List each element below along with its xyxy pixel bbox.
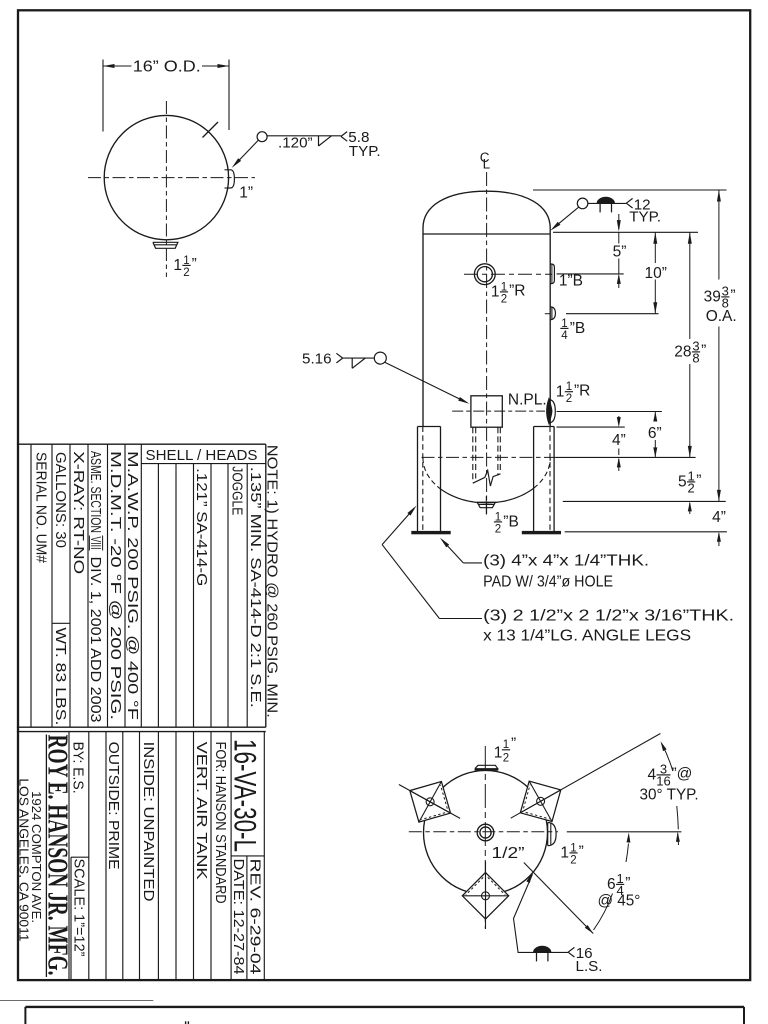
svg-text:M.D.M.T. -20 °F @ 200: M.D.M.T. -20 °F @ 200 PSIG.	[107, 451, 123, 720]
leader balloon 12 TYP. at top head	[533, 190, 727, 232]
svg-text:.121” SA-414-G: .121” SA-414-G	[193, 468, 209, 586]
svg-text:”: ”	[696, 473, 701, 490]
svg-text:1: 1	[570, 842, 576, 854]
svg-text:VERT. AIR TANK: VERT. AIR TANK	[193, 742, 209, 880]
top view 1-1/2" bottom coupling	[153, 242, 197, 278]
elevation vertical centerline	[486, 172, 488, 514]
elevation 1/4"B side coupling	[550, 307, 585, 342]
svg-text:2: 2	[687, 480, 694, 495]
svg-text:8: 8	[692, 350, 699, 365]
svg-text:2: 2	[566, 393, 572, 405]
svg-text:REV. 6-29-04: REV. 6-29-04	[246, 859, 262, 975]
dimension 10"	[644, 232, 666, 313]
top view tank shell circle	[104, 115, 228, 239]
title block grid	[69, 732, 264, 981]
elevation dimension extension lines	[545, 232, 727, 532]
elevation nameplate N.PL.	[452, 392, 546, 427]
svg-text:39: 39	[704, 289, 721, 306]
dimension 4" base	[712, 509, 726, 546]
bottom view tank circle	[424, 771, 548, 895]
bottom view dimension 4-3/16" @ 30 TYP.	[567, 741, 699, 845]
svg-text:4: 4	[648, 767, 657, 784]
elevation right angle leg	[522, 427, 561, 535]
svg-text:”: ”	[730, 288, 735, 305]
bottom view angle leg upper-right	[511, 734, 661, 822]
leader (3) angle legs callout	[382, 506, 734, 645]
svg-text:1: 1	[495, 511, 501, 523]
svg-text:5”: 5”	[613, 244, 627, 261]
svg-text:LOS ANGELES, CA 90011: LOS ANGELES, CA 90011	[16, 778, 31, 941]
svg-text:1: 1	[173, 257, 182, 274]
svg-text:10”: 10”	[644, 265, 666, 282]
svg-text:INSIDE: UNPAINTED: INSIDE: UNPAINTED	[140, 742, 156, 902]
svg-text:1: 1	[183, 255, 189, 267]
svg-text:”: ”	[192, 256, 197, 273]
svg-text:TYP.: TYP.	[349, 143, 381, 160]
svg-text:”B: ”B	[570, 320, 586, 337]
svg-text:6”: 6”	[648, 425, 662, 442]
second sheet top edge	[0, 1001, 744, 1024]
svg-text:SHELL / HEADS: SHELL / HEADS	[146, 448, 258, 464]
weld callout 16 L.S.	[514, 873, 603, 975]
svg-text:1: 1	[494, 745, 503, 762]
svg-text:30° TYP.: 30° TYP.	[640, 786, 699, 803]
svg-text:”B: ”B	[503, 514, 519, 531]
top view centerlines	[88, 101, 255, 277]
elevation 1/2"B bottom drain	[477, 496, 519, 535]
svg-text:2: 2	[495, 523, 501, 535]
bottom view angle leg upper-left	[399, 782, 460, 823]
svg-text:2: 2	[503, 752, 509, 764]
svg-text:WT. 83 LBS.: WT. 83 LBS.	[52, 627, 68, 725]
svg-text:DATE: 12-27-84: DATE: 12-27-84	[230, 859, 246, 975]
weld callout .120" / 5.8 TYP.	[267, 129, 381, 160]
svg-text:”R: ”R	[509, 283, 525, 300]
svg-text:4”: 4”	[612, 432, 626, 449]
bottom view dimension 6-1/4" @ 45	[524, 833, 641, 934]
dimension 39-3/8" O.A.	[704, 190, 737, 501]
svg-text:PAD W/ 3/4”ø HOLE: PAD W/ 3/4”ø HOLE	[483, 573, 613, 590]
dimension 5-1/2"	[678, 468, 701, 514]
elevation bottom head	[423, 458, 550, 503]
svg-text:”: ”	[511, 736, 516, 753]
svg-text:16-VA-30-L: 16-VA-30-L	[227, 739, 263, 852]
svg-text:JOGGLE: JOGGLE	[229, 466, 245, 515]
svg-text:GALLONS: 30: GALLONS: 30	[52, 452, 68, 548]
note hydro test	[263, 445, 280, 718]
specification table grid	[17, 444, 266, 731]
svg-text:ASME. SECTION: ASME. SECTION	[87, 451, 103, 533]
bottom view centerlines	[409, 746, 558, 929]
specification table texts	[33, 448, 264, 725]
top view weld tick mark	[203, 122, 219, 138]
elevation 1"B side coupling	[550, 264, 583, 290]
bottom view 1/2" center fitting	[477, 824, 524, 862]
top view dimension 16" O.D.	[103, 58, 229, 131]
elevation tank shell and top head	[423, 191, 550, 530]
svg-text:2: 2	[501, 293, 507, 305]
svg-text:1: 1	[566, 381, 572, 393]
svg-text:SERIAL NO. UM#: SERIAL NO. UM#	[33, 452, 49, 563]
svg-text:DIV. 1, 2001 ADD 2003: DIV. 1, 2001 ADD 2003	[87, 557, 103, 723]
svg-text:1: 1	[491, 284, 500, 301]
svg-text:”: ”	[625, 875, 630, 892]
svg-text:1: 1	[560, 845, 569, 862]
dimension 6"	[648, 412, 662, 458]
dimension 4" legs	[612, 416, 626, 471]
svg-text:X-RAY: RT-NO: X-RAY: RT-NO	[70, 451, 86, 574]
svg-text:1: 1	[503, 739, 509, 751]
svg-text:N.PL.: N.PL.	[508, 392, 547, 409]
top view 1" coupling	[225, 170, 254, 202]
company name block	[16, 735, 73, 978]
svg-text:L.S.: L.S.	[576, 958, 603, 975]
svg-text:6: 6	[607, 876, 616, 893]
svg-text:1/2”: 1/2”	[492, 845, 525, 862]
svg-text:1: 1	[561, 318, 567, 330]
svg-text:x 13 1/4”LG. ANGLE LEGS: x 13 1/4”LG. ANGLE LEGS	[483, 628, 691, 645]
bottom view 1-1/2" top fitting	[475, 736, 517, 770]
svg-text:TYP.: TYP.	[629, 209, 661, 226]
title block texts	[70, 739, 264, 975]
svg-text:OUTSIDE: PRIME: OUTSIDE: PRIME	[105, 742, 121, 870]
svg-text:1: 1	[556, 383, 565, 400]
svg-text:28: 28	[674, 344, 691, 361]
svg-text:NOTE: 1) HYDRO @ 260 PSIG. MIN: NOTE: 1) HYDRO @ 260 PSIG. MIN.	[263, 445, 280, 718]
svg-text:.135” MIN. SA-414-D 2:1 S: .135” MIN. SA-414-D 2:1 S.E.	[247, 467, 263, 708]
elevation 1-1/2"R lower side coupling	[547, 381, 590, 423]
svg-text:(3) 2 1/2”x 2 1/2”x 3/16”: (3) 2 1/2”x 2 1/2”x 3/16”THK.	[483, 607, 734, 624]
svg-text:.120”: .120”	[278, 135, 313, 152]
svg-text:1”: 1”	[239, 185, 253, 202]
elevation internal dip tube (hidden)	[473, 427, 501, 486]
elevation left angle leg	[411, 427, 450, 535]
svg-text:2: 2	[183, 267, 189, 279]
elevation bottom tangent line	[422, 456, 557, 458]
svg-text:(3) 4”x 4”x 1/4”THK.: (3) 4”x 4”x 1/4”THK.	[483, 553, 649, 570]
weld callout 5.16 with leader to nameplate	[302, 351, 469, 404]
svg-text:@ 45°: @ 45°	[598, 893, 641, 910]
bottom view angle leg bottom	[462, 862, 508, 930]
svg-text:M.A.W.P. 200 PSIG. @ 400: M.A.W.P. 200 PSIG. @ 400 °F	[124, 451, 140, 720]
svg-text:5: 5	[678, 474, 687, 491]
svg-text:2: 2	[570, 854, 576, 866]
svg-text:”R: ”R	[574, 382, 590, 399]
svg-text:FOR: HANSON STANDARD: FOR: HANSON STANDARD	[212, 742, 228, 904]
svg-text:”: ”	[579, 844, 584, 861]
dimension 5"	[613, 232, 627, 288]
elevation 1-1/2"R front coupling	[464, 264, 552, 305]
leader balloon to shell weld	[232, 132, 267, 168]
leader (3) pad callout	[440, 538, 649, 591]
svg-text:L: L	[483, 157, 491, 172]
elevation centerline symbol CL	[480, 150, 491, 172]
svg-text:1: 1	[501, 281, 507, 293]
svg-text:O.A.: O.A.	[706, 308, 737, 325]
svg-text:1”B: 1”B	[559, 273, 583, 290]
svg-text:”@: ”@	[672, 766, 693, 783]
svg-text:4”: 4”	[712, 509, 726, 526]
svg-text:16” O.D.: 16” O.D.	[133, 58, 201, 75]
dimension 28-3/8"	[674, 232, 706, 457]
svg-text:5.16: 5.16	[302, 351, 332, 368]
svg-text:”: ”	[701, 343, 706, 360]
svg-text:4: 4	[561, 330, 568, 342]
bottom view 1-1/2" side fitting	[548, 823, 584, 867]
